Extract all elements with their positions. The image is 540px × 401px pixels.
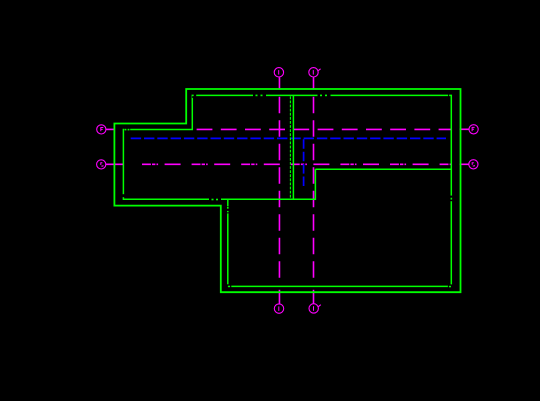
- digit 1 bottom right bubble: [313, 306, 315, 311]
- interior notch vertical: [314, 169, 316, 200]
- blue reference line horizontal: [131, 137, 446, 139]
- bubble 2 bottom: [309, 304, 318, 313]
- digit 1 bottom left bubble: [278, 306, 280, 311]
- leader tick bubble 2 bottom: [318, 305, 321, 307]
- interior notch horizontal: [315, 168, 451, 170]
- central wall hidden (dashed) vertical: [289, 96, 291, 198]
- bubble 2 top: [309, 68, 318, 77]
- bubble letters drawn as thin strokes: [101, 70, 475, 311]
- bubble G left: [97, 160, 106, 169]
- letter G left: [101, 163, 104, 166]
- digit 1 top left bubble: [278, 70, 280, 75]
- bubble F left: [97, 125, 106, 134]
- inner wall ring (phantom linetype, mostly solid): [123, 95, 451, 286]
- blue reference line vertical: [303, 139, 305, 187]
- bubble G right: [469, 160, 478, 169]
- inner step extension line: [228, 198, 316, 200]
- letter G right: [472, 163, 475, 166]
- grid line G horizontal (magenta dashed): [106, 163, 469, 165]
- outer wall ring: [114, 89, 460, 292]
- grid bubbles: [97, 68, 479, 314]
- digit 1 top right bubble: [312, 70, 314, 75]
- letter F left: [101, 128, 104, 132]
- letter F right: [472, 127, 475, 131]
- grid line 1 vertical (magenta dashed): [278, 77, 280, 304]
- leader tick bubble 2 top: [318, 69, 321, 71]
- phantom dot-group breaks on inner ring: [122, 94, 452, 288]
- central wall solid vertical: [292, 95, 294, 199]
- bubble 1 top: [274, 68, 283, 77]
- grid line F horizontal (magenta dashed): [106, 128, 469, 130]
- grid line 2 vertical (magenta dashed): [313, 77, 315, 304]
- bubble 1 bottom: [274, 304, 283, 313]
- bubble F right: [469, 125, 478, 134]
